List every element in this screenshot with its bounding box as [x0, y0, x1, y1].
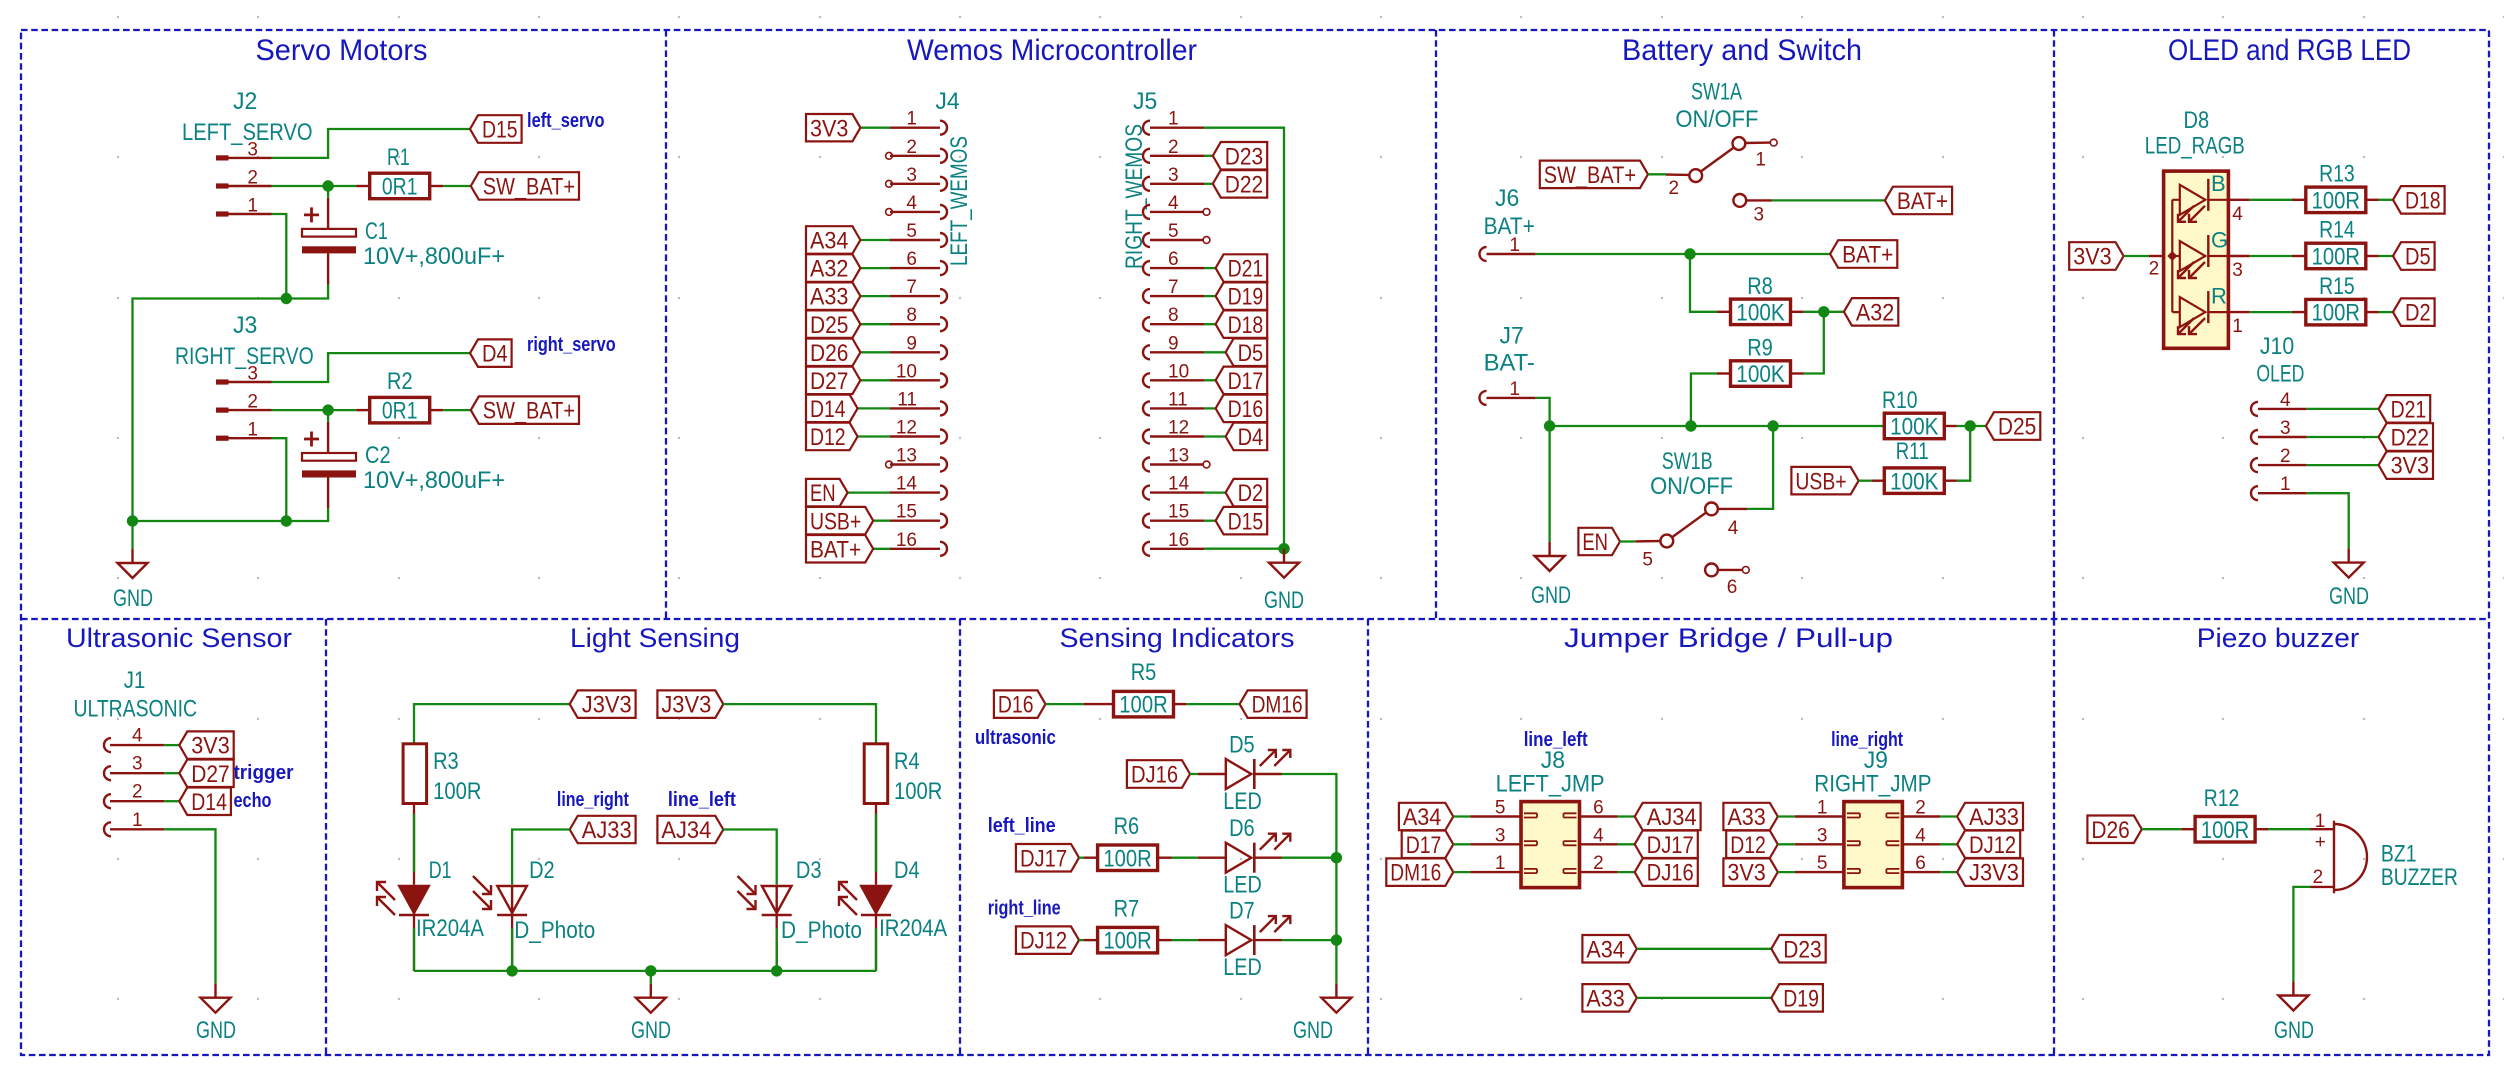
svg-text:D_Photo: D_Photo [514, 917, 595, 944]
svg-text:D19: D19 [1783, 986, 1819, 1013]
resistor R5 [1084, 703, 1114, 705]
svg-text:2: 2 [2280, 446, 2291, 467]
connector J4 pin 11 [940, 401, 947, 415]
global label D17 (J8 pin 3) [1402, 831, 1454, 859]
svg-text:15: 15 [1168, 502, 1189, 523]
connector J10 pin 3 [2251, 430, 2258, 444]
no-connect J5 pin 5 [1203, 237, 1210, 244]
junction at cap top [322, 404, 333, 415]
svg-text:D26: D26 [2091, 817, 2129, 844]
svg-text:3V3: 3V3 [2073, 244, 2111, 271]
wire 3V3 to J9 [1778, 871, 1795, 873]
capacitor C2 pin bottom [327, 478, 329, 509]
jumper J8 pin 5 [1470, 815, 1521, 817]
capacitor C1 [304, 207, 319, 222]
svg-text:GND: GND [631, 1017, 671, 1044]
no-connect J5 pin 4 [1203, 209, 1210, 216]
svg-text:R14: R14 [2319, 217, 2355, 244]
svg-text:AJ34: AJ34 [661, 817, 711, 844]
wire R5 to DM16 [1186, 703, 1239, 705]
svg-text:1: 1 [247, 196, 258, 217]
svg-text:1: 1 [247, 420, 258, 441]
wire J5 pin 2 [1204, 155, 1213, 157]
svg-text:ultrasonic: ultrasonic [975, 727, 1056, 749]
connector J4 pin 3 [940, 177, 947, 191]
global label EN (J4 pin 14) [806, 479, 848, 507]
connector J3 pin 2 [216, 408, 272, 413]
global label D19 (bridge) [1771, 984, 1823, 1012]
svg-text:AJ33: AJ33 [1969, 804, 2019, 831]
wire A34 to J8 [1453, 815, 1470, 817]
junction J2 pin1 rail [281, 293, 292, 304]
svg-text:1: 1 [1509, 379, 1520, 400]
svg-text:15: 15 [896, 502, 917, 523]
wire R7 to D7 [1172, 939, 1198, 941]
wire R14 to D5 [2379, 255, 2394, 257]
svg-text:100R: 100R [894, 778, 942, 805]
junction D6 GND rail [1331, 852, 1342, 863]
junction D7 GND rail [1331, 934, 1342, 945]
ground GND wemos [1269, 549, 1299, 578]
svg-text:R13: R13 [2319, 161, 2355, 188]
svg-text:3: 3 [247, 364, 258, 385]
svg-text:GND: GND [1264, 587, 1304, 614]
connector J2 pin 2 [216, 183, 272, 188]
svg-text:BAT+: BAT+ [1897, 188, 1948, 215]
svg-text:EN: EN [810, 480, 836, 507]
svg-text:J3: J3 [233, 312, 257, 339]
svg-text:D8: D8 [2184, 107, 2210, 134]
svg-text:8: 8 [906, 305, 917, 326]
svg-text:Wemos Microcontroller: Wemos Microcontroller [907, 34, 1197, 67]
svg-text:5: 5 [1168, 221, 1179, 242]
svg-text:GND: GND [196, 1017, 236, 1044]
connector J4 pin 5 [940, 233, 947, 247]
connector J5 pin 10 [1143, 373, 1150, 387]
wire D4 rail green [875, 928, 877, 971]
wire R4 to D4 [875, 804, 877, 885]
wire J5 pin 12 [1204, 435, 1226, 437]
photodiode D1 [399, 886, 429, 915]
svg-text:3: 3 [132, 754, 143, 775]
global label 3V3 (D8) [2069, 242, 2123, 270]
no-connect J4 pin 13 [886, 461, 893, 468]
svg-text:R8: R8 [1747, 273, 1773, 300]
wire USB+ to R11 [1859, 480, 1872, 482]
junction J6 branch [1684, 248, 1695, 259]
resistor R11 [1944, 480, 1957, 482]
svg-text:A32: A32 [1856, 299, 1894, 326]
wire 3V3 top rail left [414, 704, 570, 744]
wire J4 pin 16 [873, 548, 890, 550]
wire A33 to J9 [1778, 815, 1795, 817]
wire J4 pin 8 [860, 323, 890, 325]
global label BAT+ (J6) [1830, 240, 1897, 268]
svg-text:Light Sensing: Light Sensing [570, 623, 740, 653]
svg-text:IR204A: IR204A [416, 915, 484, 942]
wire 3V3 top rail right [723, 704, 876, 744]
led D8 pin 4 [2228, 199, 2249, 201]
global label D18 (J5 pin 8) [1216, 310, 1268, 338]
junction rail at R9 [1685, 420, 1696, 431]
wire J2 pin1 down [272, 214, 287, 299]
svg-text:R: R [2211, 283, 2227, 308]
svg-text:5: 5 [1642, 549, 1653, 570]
jumper J8 pin 1 [1470, 871, 1521, 873]
svg-text:J5: J5 [1133, 88, 1157, 115]
junction GND rail light [645, 965, 656, 976]
junction rail at SW1B [1767, 420, 1778, 431]
svg-text:1: 1 [1509, 235, 1520, 256]
jumper J9 pin 4 [1902, 843, 1940, 845]
wire J4 pin 6 [860, 267, 890, 269]
ground GND ultrasonic [201, 984, 231, 1013]
global label 3V3 (J1) [179, 731, 233, 759]
svg-text:6: 6 [1727, 577, 1738, 598]
global label DJ16 (J8 pin 2) [1635, 858, 1698, 886]
connector J4 pin 15 [940, 514, 947, 528]
svg-text:D7: D7 [1229, 898, 1255, 925]
led D8 pin 3 [2228, 255, 2249, 257]
no-connect J4 pin 2 [886, 152, 893, 159]
wire D2 rail green [511, 928, 513, 971]
photodiode D3 [762, 886, 792, 915]
wire pin3 to D15 [272, 129, 471, 158]
svg-text:BUZZER: BUZZER [2381, 864, 2458, 891]
connector J5 pin 3 [1143, 177, 1150, 191]
led D7 pin right [1254, 939, 1281, 941]
led D8 element B [2180, 185, 2206, 215]
connector J3 pin 3 [216, 379, 272, 384]
svg-text:D15: D15 [482, 117, 518, 144]
photodiode D4 [861, 886, 891, 915]
svg-text:100R: 100R [1103, 928, 1151, 955]
wire J8 to DJ16 [1618, 871, 1635, 873]
global label DJ17 (J8 pin 4) [1635, 831, 1698, 859]
connector J5 pin 2 [1143, 149, 1150, 163]
jumper J8 pads [1524, 813, 1577, 873]
connector J4 pin 12 [940, 430, 947, 444]
svg-text:9: 9 [1168, 333, 1179, 354]
junction rail at J7 [1544, 420, 1555, 431]
wire J9 to DJ12 [1940, 843, 1957, 845]
svg-text:GND: GND [1293, 1017, 1333, 1044]
wire D1 rail green [413, 928, 415, 971]
wire J5 pin 15 [1204, 520, 1216, 522]
svg-text:1: 1 [1817, 798, 1828, 819]
wire D8 to R14 [2250, 255, 2292, 257]
svg-text:D27: D27 [191, 761, 229, 788]
svg-text:1: 1 [1755, 150, 1766, 171]
wire J10 pin 4 [2307, 408, 2379, 410]
jumper J8 pin 2 [1580, 871, 1618, 873]
wire J9 to AJ33 [1940, 815, 1957, 817]
svg-text:ON/OFF: ON/OFF [1675, 106, 1758, 133]
svg-text:LED: LED [1223, 788, 1261, 815]
wire J4 pin 12 [858, 435, 890, 437]
svg-text:1: 1 [132, 810, 143, 831]
svg-text:J3V3: J3V3 [1969, 860, 2019, 887]
connector J5 pin 6 [1143, 261, 1150, 275]
svg-text:D1: D1 [429, 857, 452, 884]
svg-text:4: 4 [906, 193, 917, 214]
global label J3V3 (left) [570, 690, 636, 718]
svg-text:D4: D4 [894, 857, 920, 884]
svg-text:A33: A33 [810, 284, 848, 311]
svg-text:D14: D14 [810, 396, 846, 423]
jumper J9 body [1844, 802, 1903, 888]
wire D4 to rail [875, 915, 877, 971]
resistor R4 [864, 744, 888, 804]
wire J4 pin 14 [848, 491, 890, 493]
global label A33 (bridge) [1582, 984, 1636, 1012]
global label D14 (J1) [179, 788, 231, 816]
global label D12 (J9 pin 3) [1726, 831, 1778, 859]
svg-text:DM16: DM16 [1252, 692, 1303, 719]
global label D22 (J5 pin 3) [1213, 170, 1267, 198]
svg-text:2: 2 [1669, 178, 1680, 199]
svg-text:3: 3 [1495, 825, 1506, 846]
connector J4 pin 1 [940, 121, 947, 135]
connector J5 pin 12 [1143, 430, 1150, 444]
wire J10 pin 2 [2307, 464, 2379, 466]
svg-text:A33: A33 [1586, 986, 1624, 1013]
svg-text:9: 9 [906, 333, 917, 354]
connector J7 pin 1 [1480, 391, 1487, 405]
global label 3V3 (J9 pin 5) [1723, 858, 1777, 886]
wire D8 to R15 [2250, 311, 2292, 313]
svg-text:R3: R3 [433, 748, 459, 775]
svg-text:OLED and RGB LED: OLED and RGB LED [2168, 34, 2411, 67]
svg-text:7: 7 [906, 277, 917, 298]
svg-text:100R: 100R [1119, 692, 1167, 719]
wire to GND [131, 521, 133, 549]
wire R3 to D1 [413, 804, 415, 885]
svg-text:SW1A: SW1A [1691, 78, 1742, 105]
connector J4 pin 6 [940, 261, 947, 275]
svg-text:100R: 100R [2312, 300, 2360, 327]
svg-text:1: 1 [2280, 474, 2291, 495]
global label BAT+ (J4 pin 16) [806, 535, 873, 563]
switch SW1A pin 3 [1733, 194, 1746, 207]
connector J10 pin 2 [2251, 458, 2258, 472]
no-connect J4 pin 4 [886, 209, 893, 216]
jumper J8 pin 3 [1470, 843, 1521, 845]
connector J4 pin 4 [940, 205, 947, 219]
global label D15 (J5 pin 15) [1216, 507, 1268, 535]
connector J5 pin 15 [1143, 514, 1150, 528]
wire junction down to cap [327, 191, 329, 198]
connector J10 pin 1 [2251, 486, 2258, 500]
svg-text:line_right: line_right [557, 789, 629, 811]
svg-text:SW_BAT+: SW_BAT+ [1544, 162, 1636, 189]
svg-text:J2: J2 [233, 88, 257, 115]
svg-text:D21: D21 [2391, 397, 2427, 424]
svg-text:Ultrasonic Sensor: Ultrasonic Sensor [66, 623, 292, 653]
jumper J9 pin 1 [1795, 815, 1844, 817]
svg-text:DJ16: DJ16 [1647, 860, 1694, 887]
led D8 body [2164, 171, 2229, 348]
global label SW_BAT+ (switch) [1540, 161, 1648, 189]
connector J10 pin 4 [2251, 402, 2258, 416]
svg-text:3: 3 [1754, 205, 1765, 226]
wire J5 pin 3 [1204, 183, 1213, 185]
svg-text:2: 2 [132, 782, 143, 803]
wire J7 pin1 to rail [1536, 398, 1550, 426]
svg-text:J3V3: J3V3 [661, 692, 711, 719]
wire J4 pin 1 [860, 127, 890, 129]
svg-text:J10: J10 [2260, 333, 2294, 360]
wire J6 pin1 to BAT+ [1536, 253, 1830, 255]
wire SW1A pin3 to BAT+ [1772, 199, 1885, 201]
led D7 pin left [1198, 939, 1226, 941]
wire J1 pin 4 [164, 744, 179, 746]
wire DJ17 to R6 [1079, 857, 1084, 859]
svg-text:right_servo: right_servo [527, 334, 616, 356]
svg-text:3V3: 3V3 [2391, 453, 2429, 480]
svg-text:DJ17: DJ17 [1647, 832, 1694, 859]
global label SW_BAT+ [471, 396, 579, 424]
svg-text:R12: R12 [2204, 785, 2240, 812]
wire J4 pin 9 [860, 351, 890, 353]
global label A33 (J4 pin 7) [806, 282, 860, 310]
global label A32 (J4 pin 6) [806, 254, 860, 282]
svg-text:3: 3 [1817, 825, 1828, 846]
wire D16 to R5 [1046, 703, 1084, 705]
jumper J8 pin 6 [1580, 815, 1618, 817]
connector J1 pin 4 [104, 738, 111, 752]
global label DM16 (J8 pin 1) [1386, 858, 1453, 886]
wire GND drop light [650, 971, 652, 984]
svg-text:+: + [2315, 832, 2326, 853]
wire J10 pin1 to GND [2307, 493, 2349, 548]
capacitor C1 pin top [327, 198, 329, 229]
svg-text:echo: echo [234, 790, 272, 812]
svg-text:2: 2 [906, 137, 917, 158]
svg-text:2: 2 [2149, 259, 2160, 280]
svg-text:Piezo buzzer: Piezo buzzer [2197, 623, 2360, 653]
wire BZ1 pin2 to GND [2293, 887, 2310, 982]
svg-text:D25: D25 [810, 312, 848, 339]
wire SW1B pin4 to rail [1747, 426, 1773, 509]
global label A34 (J4 pin 5) [806, 226, 860, 254]
svg-text:J1: J1 [124, 667, 146, 694]
connector J4 pin 16 [940, 542, 947, 556]
global label DJ17 [1016, 844, 1079, 872]
svg-text:D16: D16 [998, 692, 1034, 719]
no-connect J4 pin 3 [886, 180, 893, 187]
wire J5 pin 8 [1204, 323, 1216, 325]
global label 3V3 (J10) [2379, 451, 2433, 479]
svg-text:D4: D4 [1238, 424, 1264, 451]
global label D16 (J5 pin 11) [1216, 395, 1268, 423]
svg-text:5: 5 [906, 221, 917, 242]
wire DJ16 to D5 [1190, 773, 1198, 775]
svg-text:D18: D18 [1228, 312, 1264, 339]
led D6 pin right [1254, 857, 1281, 859]
jumper J9 pin 3 [1795, 843, 1844, 845]
wire J10 pin 3 [2307, 436, 2379, 438]
svg-text:RIGHT_WEMOS: RIGHT_WEMOS [1121, 124, 1148, 269]
svg-text:trigger: trigger [234, 762, 294, 784]
wire J5 pin 7 [1204, 295, 1216, 297]
global label D5 (J5 pin 9) [1226, 339, 1268, 367]
wire R to SW_BAT+ [443, 409, 471, 411]
connector J1 pin 3 [104, 766, 111, 780]
svg-text:D2: D2 [1238, 480, 1264, 507]
svg-text:R10: R10 [1882, 387, 1918, 414]
wire J4 pin 7 [860, 295, 890, 297]
global label A32 [1844, 298, 1898, 326]
wire 3V3 to D8 pin2 [2124, 255, 2149, 257]
jumper J9 pin 2 [1902, 815, 1940, 817]
svg-text:line_left: line_left [668, 789, 736, 811]
svg-text:J7: J7 [1500, 323, 1524, 350]
svg-text:LEFT_WEMOS: LEFT_WEMOS [946, 136, 973, 266]
global label D19 (J5 pin 7) [1216, 282, 1268, 310]
svg-text:EN: EN [1582, 529, 1608, 556]
resistor R2 [356, 409, 370, 411]
global label BAT+ (switch) [1885, 187, 1952, 215]
wire R6 to D6 [1172, 857, 1198, 859]
svg-text:SW_BAT+: SW_BAT+ [483, 174, 575, 201]
switch SW1B pin 5 [1660, 535, 1673, 548]
svg-text:D19: D19 [1228, 284, 1264, 311]
svg-text:D16: D16 [1228, 396, 1264, 423]
svg-text:A34: A34 [1403, 804, 1441, 831]
jumper J9 pin 5 [1795, 871, 1844, 873]
svg-text:A33: A33 [1727, 804, 1765, 831]
capacitor C1 pin bottom [327, 253, 329, 284]
wire R to SW_BAT+ [443, 185, 471, 187]
jumper J9 pads [1847, 813, 1900, 873]
svg-text:D2: D2 [2405, 300, 2431, 327]
svg-text:G: G [2211, 227, 2228, 252]
svg-text:D21: D21 [1228, 256, 1264, 283]
svg-text:RIGHT_SERVO: RIGHT_SERVO [175, 343, 314, 370]
resistor R12 [2181, 828, 2195, 830]
wire pin2 to R [272, 185, 357, 187]
svg-text:D5: D5 [1229, 732, 1255, 759]
svg-text:4: 4 [2280, 390, 2291, 411]
global label USB+ (J4 pin 15) [806, 507, 873, 535]
wire pin2 to R [272, 409, 357, 411]
svg-text:Battery and Switch: Battery and Switch [1622, 34, 1862, 67]
wire J1 pin1 to GND [164, 829, 215, 983]
svg-text:GND: GND [113, 585, 153, 612]
global label D25 (J4 pin 8) [806, 310, 860, 338]
svg-text:D18: D18 [2405, 187, 2441, 214]
global label A34 (bridge) [1582, 935, 1636, 963]
global label D23 (bridge) [1771, 935, 1825, 963]
svg-text:6: 6 [906, 249, 917, 270]
global label AJ33 [570, 816, 636, 844]
resistor R13 [2292, 199, 2306, 201]
svg-text:10V+,800uF+: 10V+,800uF+ [363, 243, 505, 270]
svg-text:100K: 100K [1890, 414, 1938, 441]
wire J4 pin 10 [860, 379, 890, 381]
wire D3 rail green [776, 928, 778, 971]
svg-text:D5: D5 [2405, 244, 2431, 271]
connector J4 pin 2 [940, 149, 947, 163]
wire A32 junction down to R9 [1804, 312, 1824, 374]
wire rail to left and down [133, 299, 287, 522]
led D8 pin 1 [2228, 311, 2249, 313]
resistor R8 [1717, 311, 1731, 313]
svg-text:14: 14 [896, 474, 918, 495]
wire J1 pin 2 [164, 800, 179, 802]
svg-text:D22: D22 [2391, 425, 2429, 452]
